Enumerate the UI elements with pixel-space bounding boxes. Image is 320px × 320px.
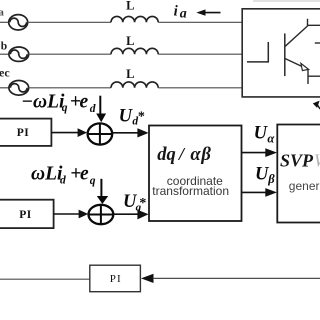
svg-text:dq: dq bbox=[157, 145, 176, 165]
wire phase b left bbox=[0, 53, 9, 55]
wire bottom left bbox=[0, 278, 90, 280]
wire phase c mid bbox=[29, 87, 111, 89]
label Ud* bbox=[119, 107, 145, 128]
svg-text:generation: generation bbox=[289, 179, 320, 193]
svg-text:−ωLi: −ωLi bbox=[21, 92, 65, 113]
label Ubeta bbox=[255, 164, 275, 186]
svg-text:PI: PI bbox=[17, 127, 30, 139]
arrow into summer S2 (from top) bbox=[97, 179, 108, 204]
svg-text:PI: PI bbox=[110, 273, 122, 285]
label ia bbox=[174, 3, 187, 21]
svg-text:αβ: αβ bbox=[190, 145, 211, 165]
inductor L2 bbox=[111, 48, 158, 54]
svg-text:U: U bbox=[254, 124, 269, 144]
svg-text:W: W bbox=[314, 150, 320, 170]
svg-text:PI: PI bbox=[19, 209, 32, 221]
summer S2 bbox=[89, 205, 114, 224]
inductor L3 bbox=[111, 82, 158, 88]
PI box PI3 bbox=[90, 265, 141, 292]
source ea bbox=[9, 15, 28, 30]
arrow Ubeta dq to SVP bbox=[242, 188, 278, 197]
SVPWM box U3 bbox=[277, 125, 320, 223]
svg-text:SVP: SVP bbox=[280, 150, 314, 170]
igbt body bar bbox=[284, 33, 286, 76]
igbt emitter arrowhead (open) bbox=[301, 63, 309, 70]
wire phase a right bbox=[158, 21, 242, 23]
svg-text:d: d bbox=[60, 175, 66, 187]
gate-drive arrowhead into converter (bottom right) bbox=[313, 101, 320, 109]
arrowhead into PI3 (pointing left) bbox=[141, 274, 154, 283]
igbt collector bbox=[285, 19, 320, 46]
source eb bbox=[9, 47, 29, 61]
igbt emitter with arrow bbox=[285, 59, 320, 84]
arrow PI1 to S1 bbox=[51, 128, 87, 137]
wire phase c left bbox=[0, 87, 9, 89]
arrow PI2 to S2 bbox=[54, 210, 89, 219]
svg-text:ωLi: ωLi bbox=[31, 164, 63, 185]
label Ualpha bbox=[254, 124, 276, 146]
arrow into summer S1 (from top) bbox=[96, 96, 106, 123]
wire bottom right bbox=[153, 277, 320, 279]
svg-text:q: q bbox=[62, 102, 68, 114]
source ec bbox=[9, 81, 29, 96]
svg-text:q: q bbox=[90, 175, 96, 187]
converter box U1 bbox=[242, 9, 320, 97]
label Uq* bbox=[123, 192, 146, 213]
wire phase b right bbox=[158, 53, 242, 55]
PI box PI2 bbox=[0, 200, 54, 228]
igbt neighbour lead stub bbox=[315, 42, 320, 44]
svg-text:transformation: transformation bbox=[152, 184, 229, 198]
wire phase a mid bbox=[28, 21, 111, 23]
svg-text:*: * bbox=[139, 196, 146, 211]
wire phase a left bbox=[0, 21, 9, 23]
svg-text:U: U bbox=[119, 107, 134, 127]
label dq/ab bbox=[157, 144, 212, 165]
wire phase c right bbox=[158, 87, 242, 89]
formula wLid+eq bbox=[31, 164, 96, 187]
svg-text:e: e bbox=[80, 92, 89, 113]
svg-text:e: e bbox=[80, 164, 89, 185]
dq/ab transformation box U2 bbox=[149, 126, 242, 222]
svg-text:L: L bbox=[126, 67, 134, 81]
wire S2 to dq box with arrowhead bbox=[113, 210, 148, 220]
svg-text:ec: ec bbox=[0, 66, 10, 80]
summer S1 bbox=[88, 123, 113, 144]
arrow ia (pointing left) bbox=[196, 9, 220, 15]
wire S1 to dq box with arrowhead bbox=[112, 128, 148, 137]
svg-text:d: d bbox=[90, 103, 96, 115]
PI box PI1 bbox=[0, 119, 51, 146]
wire phase b mid bbox=[29, 53, 111, 55]
svg-text:L: L bbox=[126, 34, 134, 48]
svg-text:β: β bbox=[267, 172, 275, 186]
svg-text:b: b bbox=[1, 40, 7, 52]
igbt gate lead bbox=[247, 42, 268, 63]
svg-text:*: * bbox=[138, 109, 145, 124]
formula -wLiq+ed bbox=[21, 92, 96, 116]
svg-text:α: α bbox=[267, 132, 275, 146]
svg-text:L: L bbox=[126, 0, 134, 13]
svg-text:a: a bbox=[0, 7, 4, 19]
svg-text:a: a bbox=[180, 6, 187, 21]
arrow Ualpha dq to SVP bbox=[242, 148, 278, 157]
inductor L1 bbox=[111, 16, 158, 22]
